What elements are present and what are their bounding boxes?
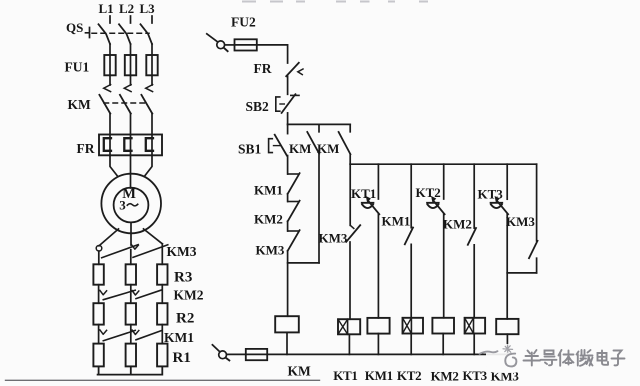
svg-text:FR: FR [77, 141, 95, 156]
contactor KM pole1 blade [99, 95, 110, 114]
svg-text:KM: KM [68, 97, 92, 112]
relay contact KT1 blade [368, 201, 379, 215]
wire bus to KT1 contact [377, 164, 379, 199]
wire KM3row col1 [98, 251, 100, 264]
relay contact KT1 delay cup [362, 203, 374, 208]
wire motor to ladder col2 [130, 223, 132, 246]
contact KM3 aux hook [350, 225, 353, 228]
contact KM aux 1 stub [318, 124, 320, 131]
watermark char 子 [612, 351, 625, 366]
contact KM1 NC blade [288, 173, 300, 194]
relay contact KT3 blade [497, 201, 508, 215]
wire bus to KM2 contact [473, 164, 475, 228]
relay contact KT2 blade [433, 201, 444, 215]
wire bus to KM1 contact [410, 164, 412, 228]
terminal top-left circle [217, 41, 225, 49]
wire KM to FR pole2 [130, 114, 132, 135]
thermal contact FR release hook [298, 69, 303, 75]
svg-text:FU2: FU2 [231, 15, 256, 30]
resistor R3 col3 [157, 264, 167, 284]
wire FR to motor pole1 [110, 155, 117, 176]
terminal top-left hook [207, 34, 218, 42]
terminal bottom-left hook [212, 345, 219, 352]
watermark char 导 [541, 351, 557, 366]
svg-text:KM1: KM1 [382, 214, 411, 229]
svg-text:KM: KM [289, 141, 311, 156]
contactor KM pole2 fixed hook [124, 85, 131, 92]
resistor R1 col3 [157, 344, 167, 367]
svg-text:L2: L2 [119, 1, 134, 16]
coil KM2 box [432, 318, 454, 334]
wire SB1 lower to KM1 contact [287, 156, 289, 174]
wire QS to FU1 pole2 [130, 44, 132, 85]
contact KM3 row blade 2 [133, 245, 168, 258]
svg-text:KM2: KM2 [174, 288, 204, 303]
wire KT1 contact to KM1 coil [377, 214, 379, 318]
wire KM3row col2 [130, 250, 132, 265]
FR heater element 3 [146, 138, 153, 151]
wire SB1 upper stub [287, 124, 289, 133]
wire KM2 coil to rail [442, 334, 444, 355]
thermal contact FR blade [286, 63, 299, 76]
wire bypass rejoin [288, 262, 319, 264]
svg-text:3: 3 [119, 197, 126, 212]
resistor R3 col2 [126, 264, 136, 284]
svg-text:FR: FR [254, 61, 272, 76]
contact KM3 aux blade [346, 225, 360, 242]
fuse FU1 pole2 [125, 55, 136, 75]
wire KM3NC to KM coil [287, 251, 289, 316]
motor M outer circle [101, 174, 161, 234]
wire KM2row col3 [161, 285, 163, 304]
button SB2 actuator dash [280, 103, 284, 105]
svg-text:SB1: SB1 [238, 141, 262, 156]
wire KM2row col2 [130, 285, 132, 304]
svg-text:KM2: KM2 [431, 369, 459, 384]
contact KM2 aux blade [468, 228, 476, 245]
wire through FU2 [235, 44, 257, 46]
wire KM aux1 down bypass [318, 154, 320, 263]
watermark char 体 [559, 350, 574, 366]
svg-text:KM1: KM1 [164, 330, 194, 345]
wire right bus [350, 163, 536, 165]
wire KT2 contact to KM2 coil [443, 214, 445, 318]
wire FR to motor pole3 [145, 155, 152, 176]
resistor R2 col1 [93, 303, 103, 324]
resistor R2 col3 [157, 303, 167, 324]
contact KM2 row blade 2 [136, 290, 161, 298]
svg-text:FU1: FU1 [65, 60, 90, 75]
contact KM3 aux upper stub [349, 164, 351, 225]
wire KM aux2 to bus [349, 154, 351, 164]
coil KM1 box [367, 318, 389, 334]
terminal bottom-left circle [219, 351, 227, 359]
svg-text:KT1: KT1 [333, 368, 357, 383]
wire motor to ladder col3 [144, 229, 163, 244]
wire KM1 coil to rail [377, 334, 379, 355]
contactor KM pole1 fixed hook [104, 85, 111, 92]
wire KM to FR pole3 [151, 114, 153, 135]
wire through FR box [110, 135, 152, 156]
wire terminal to FU2 [225, 44, 235, 46]
FR heater element 2 [124, 138, 131, 151]
thermal relay FR box [99, 135, 162, 156]
contact KM1 aux blade [405, 228, 413, 245]
coil KT1 box [338, 319, 360, 334]
wire bus to KT3 contact [506, 164, 508, 199]
contactor KM linkage dashed [104, 102, 149, 104]
switch QS pole 1 blade [99, 24, 111, 44]
svg-text:KM3: KM3 [167, 244, 197, 259]
wire L2 stub [130, 16, 132, 23]
svg-text:R3: R3 [174, 270, 192, 286]
wire KT3 coil to rail [473, 334, 475, 355]
contact KM2 row blade 1 [103, 290, 135, 300]
svg-text:KM: KM [288, 363, 312, 378]
cropped text remnant marks top [242, 1, 256, 3]
contact KM2 row terminal triangle col1 [100, 290, 107, 294]
coil KT3 box [465, 318, 486, 334]
wire KT1 coil to rail [348, 334, 350, 354]
wire QS to FU1 pole3 [151, 44, 153, 85]
wire bus to KT2 contact [443, 164, 445, 199]
fuse FU2 body [235, 39, 257, 50]
button SB2 fixed tick [291, 94, 299, 96]
resistor R1 col1 [93, 344, 103, 367]
svg-text:KM1: KM1 [365, 368, 393, 383]
watermark char 微 [577, 350, 593, 366]
coil KT2 divider [410, 318, 412, 334]
wire star-point bus [98, 366, 163, 374]
wire KT2 coil to rail [410, 334, 412, 355]
button SB2 actuator bracket [276, 97, 280, 111]
FR heater element 1 [104, 138, 111, 151]
button SB1 blade [275, 135, 287, 156]
WATERMARK-SECTION [480, 344, 625, 373]
wire KM3 selfhold rejoin [507, 272, 536, 274]
wire terminal to bottom fuse [227, 353, 246, 355]
wire FR to SB2 [287, 76, 289, 94]
contact KM1 NC tick [288, 173, 298, 175]
wire KM3row col3 [161, 244, 163, 264]
coil KM box [275, 316, 299, 332]
contact KM1 row terminal triangle col1 [100, 330, 107, 334]
svg-text:KT2: KT2 [416, 185, 441, 200]
wire SB2 to branch [287, 113, 289, 125]
contact KM3 NC blade [288, 230, 300, 251]
button SB2 blade [282, 94, 296, 113]
coil KT2 box [403, 318, 424, 334]
coil KT3 X mark [465, 318, 474, 334]
svg-text:KM2: KM2 [443, 216, 472, 231]
relay contact KT3 arrowhead [495, 197, 499, 202]
wire KM2 contact to KT3 coil [473, 245, 475, 318]
svg-text:R1: R1 [173, 350, 191, 366]
svg-text:KM3: KM3 [506, 214, 535, 229]
wire KM to FR pole1 [109, 114, 111, 135]
relay contact KT2 arrowhead [432, 197, 436, 202]
watermark char 电 [598, 351, 609, 365]
motor M inner circle [114, 188, 149, 223]
wire FR to motor pole2 [130, 155, 132, 188]
terminal top-left tail [224, 48, 227, 51]
wire KM1row col2 [130, 325, 132, 344]
contact KM aux 1 blade [307, 132, 319, 154]
contactor KM pole3 blade [141, 95, 152, 114]
watermark logo sparkle [503, 345, 513, 352]
wire KM1NC to KM2NC [287, 194, 289, 202]
svg-text:R2: R2 [176, 311, 194, 327]
wire KM2NC to KM3NC [287, 221, 289, 231]
resistor R1 col2 [126, 344, 136, 367]
switch QS actuator tick [86, 28, 90, 38]
wire KM1 contact to KT2 coil [410, 244, 412, 317]
contact KM1 row terminal triangle col2 [132, 330, 139, 334]
contact KM aux 2 blade [339, 132, 351, 154]
fuse FU1 pole1 [104, 55, 115, 75]
wire FU2 to main line [257, 45, 288, 63]
wire KM2row col1 [98, 285, 100, 304]
wire L3 stub [151, 16, 153, 23]
svg-text:QS: QS [66, 20, 83, 35]
contact KM aux 2 stub [349, 124, 351, 131]
wire KT3 contact to KM3 coil [506, 214, 508, 319]
contact KM1 row blade 1 [103, 330, 135, 340]
contact KM3 row terminal circle col1 [96, 246, 102, 252]
wire motor to ladder col1 [99, 229, 119, 246]
watermark backing blob [486, 344, 523, 373]
svg-text:L1: L1 [99, 1, 114, 16]
watermark logo swirl [505, 354, 516, 367]
switch QS pole 2 blade [119, 24, 131, 44]
contactor KM pole2 blade [120, 95, 131, 114]
svg-text:KM3: KM3 [256, 242, 285, 257]
coil KT2 X mark [403, 318, 412, 334]
wire L1 stub [109, 16, 111, 23]
resistor R3 col1 [93, 264, 103, 284]
resistor R2 col2 [126, 303, 136, 324]
contact KM2 row terminal triangle col2 [132, 291, 139, 295]
contact KM2 NC blade [288, 201, 300, 222]
wire KM1row col3 [161, 325, 163, 344]
contact KM2 NC tick [288, 201, 298, 203]
contactor KM pole3 fixed hook [146, 85, 153, 92]
button SB1 actuator dash [274, 145, 281, 147]
contact KM3 selfhold blade [529, 241, 538, 258]
svg-text:KT3: KT3 [478, 187, 504, 202]
fuse bottom body [246, 349, 267, 360]
svg-text:KM1: KM1 [254, 182, 283, 197]
relay contact KT3 delay cup [491, 203, 503, 208]
coil KT3 divider [473, 318, 475, 334]
switch QS pole 3 blade [141, 24, 153, 44]
contact KM3 row terminal triangle col2 [132, 245, 139, 249]
wire KM3 aux to KT1 coil [349, 242, 351, 319]
contact KM3 row blade 1 [102, 245, 139, 258]
svg-text:KT2: KT2 [397, 368, 421, 383]
relay contact KT2 delay cup [427, 203, 439, 208]
wire KM1row col1 [98, 325, 100, 344]
coil KM3 box [496, 319, 518, 334]
terminal bottom-left tail [226, 358, 229, 360]
contact KM1 row blade 2 [136, 331, 161, 340]
wire bus to KM3 selfhold contact [536, 164, 538, 241]
wire KM3 coil to rail [506, 334, 508, 354]
svg-text:L3: L3 [140, 1, 156, 16]
decorative bottom edge line [6, 379, 320, 381]
button SB1 actuator bracket [269, 139, 273, 153]
wire bottom rail [267, 353, 508, 355]
coil KT1 divider [347, 319, 349, 334]
contact KM3 NC tick [288, 230, 298, 232]
svg-text:SB2: SB2 [246, 99, 270, 114]
watermark logo swoosh [480, 351, 498, 354]
coil KT1 X mark [338, 319, 348, 334]
wire branch horizontal [288, 123, 351, 125]
wire KM coil to rail [286, 332, 288, 354]
svg-text:KM3: KM3 [319, 231, 348, 246]
relay contact KT1 arrowhead [366, 197, 370, 202]
svg-text:KT1: KT1 [351, 186, 376, 201]
watermark char 半 [524, 350, 541, 366]
fuse FU1 pole3 [146, 55, 157, 75]
svg-text:KM2: KM2 [254, 211, 283, 226]
motor phase tilde [127, 204, 137, 206]
wire through bottom fuse [246, 353, 267, 355]
svg-text:KT3: KT3 [463, 368, 488, 383]
switch QS linkage dashed [92, 32, 149, 34]
wire QS to FU1 pole1 [109, 44, 111, 85]
wire KM3 selfhold down [536, 258, 538, 273]
svg-text:KM: KM [317, 141, 339, 156]
